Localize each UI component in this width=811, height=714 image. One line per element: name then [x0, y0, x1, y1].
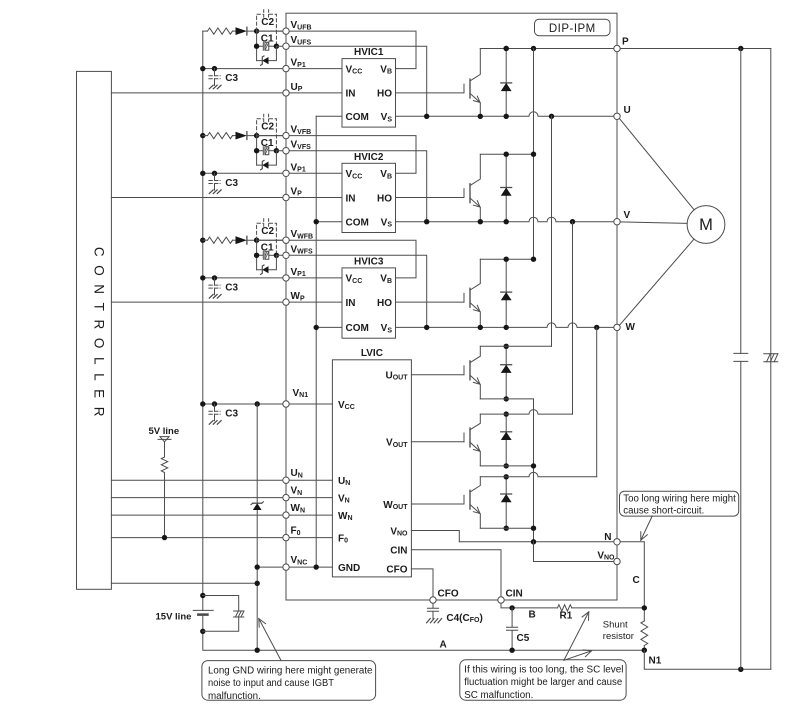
- junction bootstrap top phase W: [254, 238, 259, 243]
- wire diode to VWFB node: [247, 239, 286, 241]
- junction P vertical / W bus: [531, 257, 536, 262]
- wire VWFS row: [276, 255, 426, 327]
- junction C3 top VN1: [212, 401, 217, 406]
- junction COM HVIC3: [314, 325, 319, 330]
- svg-text:VP: VP: [291, 187, 303, 198]
- capacitor C3 VN1 (dashed): [214, 404, 216, 411]
- diode freewheel low V: [505, 414, 507, 466]
- svg-text:CIN: CIN: [390, 546, 407, 557]
- svg-text:UP: UP: [291, 82, 303, 93]
- svg-text:IN: IN: [346, 193, 356, 204]
- capacitor C1 phase U: [257, 42, 264, 50]
- wire VB to VUFB riser HVIC1: [257, 31, 416, 69]
- svg-text:WN: WN: [291, 503, 306, 514]
- wire collector bus V: [480, 153, 533, 155]
- power 5V terminal: [160, 437, 169, 442]
- junction R1/shunt: [642, 605, 647, 610]
- svg-text:Long GND wiring here might gen: Long GND wiring here might generate: [208, 665, 373, 676]
- diode bootstrap phase U: [236, 27, 247, 35]
- junction emitter high W: [478, 325, 483, 330]
- capacitor C3 phase U (dashed): [214, 69, 216, 76]
- node VP: [283, 194, 289, 200]
- wire VN row: [111, 497, 332, 499]
- wire P rail: [480, 48, 617, 50]
- wire lower-U collector bus: [480, 345, 551, 347]
- junction C3 top phase W: [212, 275, 217, 280]
- ground frame 15V: [234, 611, 244, 617]
- wire VS/V emitter row: [396, 217, 618, 222]
- wire VB to VWFB riser HVIC3: [257, 240, 416, 278]
- junction W row to lower-W riser: [594, 325, 599, 330]
- wire N to shunt (C trace): [617, 542, 644, 621]
- wire HO to gate HVIC3: [396, 301, 465, 303]
- svg-text:15V line: 15V line: [156, 612, 192, 623]
- svg-text:VWFB: VWFB: [291, 229, 314, 240]
- svg-text:IN: IN: [346, 298, 356, 309]
- node VUFS: [283, 43, 289, 49]
- junction diode top low U: [504, 344, 509, 349]
- wire COM common vertical: [315, 116, 317, 567]
- wire riser U node to lower-U collector: [551, 116, 553, 346]
- svg-text:C1: C1: [261, 242, 274, 253]
- svg-text:VNC: VNC: [291, 555, 308, 566]
- svg-text:C3: C3: [225, 409, 238, 420]
- DIP-IPM label box: [535, 19, 611, 36]
- junction C1 right phase V: [274, 148, 279, 153]
- svg-text:VWFS: VWFS: [291, 244, 314, 255]
- wire UN row: [111, 479, 332, 481]
- junction gnd vertical top: [255, 401, 260, 406]
- wire COM HVIC2: [316, 221, 342, 223]
- svg-text:UN: UN: [291, 468, 303, 479]
- junction 15V rail / phase W charge row: [200, 238, 205, 243]
- svg-text:CONTROLLER: CONTROLLER: [92, 247, 107, 425]
- wire VNO node branch: [534, 542, 618, 562]
- node VWFS: [283, 252, 289, 258]
- svg-text:C2: C2: [261, 121, 274, 132]
- svg-text:C2: C2: [261, 17, 274, 28]
- svg-text:N1: N1: [649, 656, 662, 667]
- arrow note2 to B: [564, 612, 589, 661]
- wire R1 to shunt: [572, 607, 645, 609]
- junction C5 bottom: [509, 648, 514, 653]
- junction C1 left phase V: [254, 148, 259, 153]
- svg-text:VNO: VNO: [597, 551, 615, 562]
- svg-text:cause short-circuit.: cause short-circuit.: [623, 506, 704, 517]
- op-amp/IC HVIC3 box: [342, 268, 396, 338]
- junction lower-W emitter chain: [531, 526, 536, 531]
- capacitor C2 phase W (dashed optional): [257, 223, 277, 255]
- resistor bootstrap phase U: [203, 30, 208, 32]
- wire VS/W emitter row: [396, 323, 618, 328]
- wire resistor to diode phase V: [233, 135, 236, 137]
- wire DC-link cap vertical: [740, 49, 742, 670]
- transistor IGBT low-side U: [463, 366, 465, 375]
- node VWFB: [283, 237, 289, 243]
- junction diode top high W: [504, 257, 509, 262]
- wire UP row (controller to HVIC1 IN): [111, 92, 342, 94]
- wire lower-V emitter: [480, 465, 533, 467]
- capacitor C2 phase U (dashed optional): [257, 14, 277, 46]
- transistor IGBT low-side W: [463, 495, 465, 504]
- wire VS/U emitter row: [396, 112, 618, 116]
- junction emitter chain / N net: [531, 539, 536, 544]
- junction diode bottom low W: [504, 526, 509, 531]
- svg-text:DIP-IPM: DIP-IPM: [549, 23, 596, 35]
- ground C4: [427, 619, 442, 623]
- junction rail VP1 phase W: [200, 275, 205, 280]
- diode freewheel high U: [505, 49, 507, 117]
- svg-text:WP: WP: [291, 291, 305, 302]
- node VNC: [283, 564, 289, 570]
- wire gnd vertical: [256, 404, 258, 650]
- svg-text:GND: GND: [338, 563, 360, 574]
- wire VP1 row phase V: [203, 172, 342, 174]
- wire WN row: [111, 514, 332, 516]
- svg-text:fluctuation might be larger an: fluctuation might be larger and cause: [464, 677, 623, 688]
- junction gnd vertical / A wire: [255, 648, 260, 653]
- svg-text:VN: VN: [291, 486, 303, 497]
- junction bootstrap top phase V: [254, 133, 259, 138]
- junction VVFS drop on V row: [424, 219, 429, 224]
- note box long GND wiring: [202, 661, 376, 701]
- svg-text:C1: C1: [261, 33, 274, 44]
- junction diode bottom low U: [504, 396, 509, 401]
- svg-text:noise to input and cause IGBT: noise to input and cause IGBT: [208, 678, 334, 689]
- junction P external cap: [738, 46, 743, 51]
- junction C1 left phase W: [254, 253, 259, 258]
- transistor IGBT low-side V: [463, 433, 465, 442]
- junction lower-V emitter chain: [531, 463, 536, 468]
- node N: [614, 539, 620, 545]
- junction 5V pull-up on F0: [162, 535, 167, 540]
- wire lower-U emitter: [480, 398, 533, 400]
- junction diode top low V: [504, 411, 509, 416]
- svg-text:W: W: [626, 322, 636, 333]
- svg-text:LVIC: LVIC: [361, 348, 383, 359]
- arrow note3: [641, 516, 652, 540]
- junction battery bottom: [200, 629, 205, 634]
- wire battery frame loop: [203, 596, 239, 632]
- wire shunt to N1: [643, 646, 645, 651]
- node F0: [283, 534, 289, 540]
- node VN: [283, 494, 289, 500]
- wire VUFS row: [276, 46, 426, 116]
- svg-text:IN: IN: [346, 89, 356, 100]
- controller box: [77, 71, 112, 589]
- svg-text:malfunction.: malfunction.: [208, 691, 261, 702]
- svg-text:If this wiring is too long, th: If this wiring is too long, the SC level: [464, 664, 623, 675]
- node VP1 phase W: [283, 275, 289, 281]
- wire VB to VVFB riser HVIC2: [257, 136, 416, 174]
- junction C1 left phase U: [254, 44, 259, 49]
- node VUFB: [283, 28, 289, 34]
- wire VP1 row phase U: [203, 68, 342, 70]
- note box short circuit: [620, 491, 739, 516]
- wire resistor to F0: [164, 473, 166, 538]
- wire COM HVIC1: [316, 115, 342, 117]
- wire diode to VVFB node: [247, 135, 286, 137]
- resistor R1: [558, 605, 572, 611]
- svg-text:HVIC2: HVIC2: [354, 152, 384, 163]
- svg-text:P: P: [622, 37, 629, 48]
- junction diode top low W: [504, 474, 509, 479]
- svg-text:Too long wiring here might: Too long wiring here might: [623, 494, 736, 505]
- wire V to motor: [620, 222, 687, 224]
- wire bootstrap left vertical phase W: [256, 240, 258, 270]
- wire battery bottom: [203, 615, 645, 651]
- wire N1 to bottom rail: [644, 650, 771, 669]
- wire resistor to diode phase W: [233, 239, 236, 241]
- wire lower-W collector bus: [480, 472, 596, 477]
- wire riser W node to lower-W collector: [596, 327, 598, 476]
- diode bootstrap phase V: [236, 132, 247, 140]
- svg-text:Shunt: Shunt: [603, 619, 628, 630]
- junction diode top high V: [504, 152, 509, 157]
- junction C5 top: [509, 605, 514, 610]
- svg-text:VN1: VN1: [293, 388, 309, 399]
- svg-text:VUFB: VUFB: [291, 20, 312, 31]
- svg-text:VP1: VP1: [291, 162, 306, 173]
- svg-text:CFO: CFO: [438, 589, 459, 600]
- transistor IGBT high-side V: [463, 189, 465, 198]
- wire UOUT to gate: [411, 374, 464, 376]
- capacitor DC-link: [734, 353, 748, 361]
- junction V row to lower-V riser: [570, 219, 575, 224]
- junction rail VN1: [200, 401, 205, 406]
- wire collector bus W: [480, 258, 533, 260]
- svg-text:C3: C3: [225, 283, 238, 294]
- svg-text:HO: HO: [377, 193, 392, 204]
- capacitor C5: [507, 608, 518, 650]
- svg-text:CIN: CIN: [506, 589, 523, 600]
- junction gnd/VNC: [255, 564, 260, 569]
- wire CIN pin drop: [411, 550, 501, 600]
- svg-text:CFO: CFO: [386, 565, 407, 576]
- wire VN1 row: [203, 403, 333, 405]
- battery 15V: [193, 609, 213, 611]
- junction rail VP1 phase V: [200, 171, 205, 176]
- resistor bootstrap phase V: [203, 135, 208, 137]
- svg-text:HVIC3: HVIC3: [354, 256, 384, 267]
- junction diode bottom low V: [504, 463, 509, 468]
- wire 5V to resistor: [164, 442, 166, 457]
- svg-text:C2: C2: [261, 226, 274, 237]
- wire U to motor: [619, 118, 694, 210]
- wire resistor to diode phase U: [233, 30, 236, 32]
- svg-text:COM: COM: [346, 112, 369, 123]
- diode bootstrap phase W: [236, 236, 247, 244]
- svg-text:5V line: 5V line: [149, 426, 180, 437]
- node WP: [283, 299, 289, 305]
- junction P rail distribution: [531, 46, 536, 51]
- junction C3 top phase U: [212, 66, 217, 71]
- svg-text:C3: C3: [225, 178, 238, 189]
- svg-text:C4(CFO): C4(CFO): [446, 613, 482, 624]
- svg-text:N: N: [604, 532, 611, 543]
- wire W to motor: [619, 239, 694, 326]
- wire F0 row: [111, 537, 332, 539]
- op-amp/IC LVIC box: [332, 360, 411, 577]
- node V: [614, 219, 620, 225]
- wire controller ground: [111, 582, 257, 584]
- node WN: [283, 512, 289, 518]
- wire WOUT to gate: [411, 503, 464, 505]
- wire bootstrap left vertical phase U: [256, 31, 258, 60]
- wire VNO pin to N net: [411, 531, 459, 542]
- junction rail VP1 phase U: [200, 66, 205, 71]
- op-amp/IC HVIC2 box: [342, 163, 396, 232]
- wire HO to gate HVIC2: [396, 197, 465, 199]
- svg-text:VP1: VP1: [291, 267, 306, 278]
- node VNO: [614, 558, 620, 564]
- node VP1 phase U: [283, 65, 289, 71]
- wire earth vertical: [770, 49, 772, 670]
- junction C1 right phase U: [274, 44, 279, 49]
- svg-text:C1: C1: [261, 138, 274, 149]
- svg-text:HVIC1: HVIC1: [354, 47, 384, 58]
- ground C3 phase W: [209, 295, 221, 299]
- wire 15V rail vertical: [202, 31, 204, 595]
- svg-text:HO: HO: [377, 298, 392, 309]
- wire CFO pin drop: [411, 569, 433, 600]
- svg-text:C5: C5: [517, 633, 530, 644]
- svg-text:C: C: [633, 575, 640, 586]
- diode freewheel low U: [505, 346, 507, 399]
- junction 15V rail / phase V charge row: [200, 133, 205, 138]
- junction C1 right phase W: [274, 253, 279, 258]
- node P: [614, 45, 620, 51]
- wire riser V node to lower-V collector: [572, 222, 574, 414]
- wire lower emitter chain vertical: [533, 399, 535, 542]
- wire WP row (controller to HVIC3 IN): [111, 301, 342, 303]
- transistor IGBT high-side W: [463, 293, 465, 302]
- svg-text:VUFS: VUFS: [291, 35, 312, 46]
- ground C3 phase V: [209, 190, 221, 194]
- wire bootstrap left vertical phase V: [256, 136, 258, 166]
- wire VOUT to gate: [411, 441, 464, 443]
- svg-text:VVFS: VVFS: [291, 140, 312, 151]
- svg-text:B: B: [529, 610, 536, 621]
- resistor bootstrap phase W: [203, 239, 208, 241]
- junction C3 top phase V: [212, 171, 217, 176]
- node VVFS: [283, 148, 289, 154]
- diode freewheel low W: [505, 477, 507, 528]
- wire HO to gate HVIC1: [396, 92, 465, 94]
- svg-text:SC malfunction.: SC malfunction.: [464, 690, 533, 701]
- op-amp/IC HVIC1 box: [342, 59, 396, 128]
- junction VWFS drop on W row: [424, 325, 429, 330]
- wire CIN to B: [501, 600, 558, 608]
- capacitor C1 phase W: [257, 251, 264, 259]
- node UP: [283, 90, 289, 96]
- junction U row to lower-U riser: [549, 114, 554, 119]
- capacitor C3 phase W (dashed): [214, 278, 216, 285]
- junction bottom rail / cap: [738, 667, 743, 672]
- node W: [614, 324, 620, 330]
- note box SC level: [460, 660, 626, 701]
- svg-text:U: U: [624, 105, 631, 116]
- node CIN: [498, 597, 504, 603]
- motor M: [687, 206, 725, 244]
- junction COM vertical bottom: [314, 564, 319, 569]
- zener diode bootstrap clamp phase W: [257, 255, 277, 269]
- svg-text:COM: COM: [346, 218, 369, 229]
- svg-text:A: A: [440, 640, 447, 651]
- arrow note2 to A: [564, 651, 592, 661]
- zener diode bootstrap clamp phase V: [257, 151, 277, 165]
- zener diode bootstrap clamp phase U: [257, 46, 277, 60]
- zener diode 15V clamp: [253, 503, 262, 510]
- capacitor C4: [427, 600, 438, 619]
- capacitor C1 phase V: [257, 147, 264, 155]
- wire COM HVIC3: [316, 326, 342, 328]
- ground earth symbol: [764, 354, 778, 362]
- node VN1: [283, 401, 289, 407]
- svg-text:COM: COM: [346, 323, 369, 334]
- node UN: [283, 477, 289, 483]
- svg-text:F0: F0: [291, 526, 301, 537]
- junction emitter high U: [478, 114, 483, 119]
- svg-text:VP1: VP1: [291, 58, 306, 69]
- wire P external: [617, 48, 771, 50]
- svg-text:V: V: [624, 210, 631, 221]
- junction P rail diode U: [504, 46, 509, 51]
- junction VUFS drop on U row: [424, 114, 429, 119]
- diode freewheel high W: [505, 259, 507, 327]
- junction emitter high V: [478, 219, 483, 224]
- diode freewheel high V: [505, 154, 507, 222]
- junction diode bottom high W: [504, 325, 509, 330]
- junction N1: [642, 648, 647, 653]
- svg-text:C3: C3: [225, 73, 238, 84]
- wire P distribution vertical: [533, 49, 535, 260]
- wire VP1 row phase W: [203, 277, 342, 279]
- ground C3 phase U: [209, 85, 221, 89]
- resistor shunt: [641, 621, 648, 646]
- node VP1 phase V: [283, 170, 289, 176]
- wire VVFS row: [276, 151, 426, 222]
- junction diode top high U: [504, 46, 509, 51]
- svg-text:HO: HO: [377, 89, 392, 100]
- resistor 5V pull-up: [161, 457, 167, 473]
- ground C3 VN1: [209, 421, 221, 425]
- node VVFB: [283, 132, 289, 138]
- capacitor C2 phase V (dashed optional): [257, 119, 277, 151]
- wire rail to battery: [202, 596, 204, 611]
- capacitor C3 phase V (dashed): [214, 173, 216, 180]
- svg-text:M: M: [699, 216, 713, 234]
- junction bootstrap top phase U: [254, 28, 259, 33]
- transistor IGBT high-side U: [463, 84, 465, 93]
- wire VNC row: [257, 566, 332, 568]
- wire lower-V collector bus: [480, 410, 572, 415]
- junction battery top: [200, 593, 205, 598]
- wire VP row (controller to HVIC2 IN): [111, 197, 342, 199]
- wire N net row: [459, 541, 617, 543]
- junction diode bottom high V: [504, 219, 509, 224]
- DIP-IPM module outline: [286, 13, 617, 600]
- junction controller gnd: [255, 581, 260, 586]
- junction COM HVIC2: [314, 219, 319, 224]
- wire diode to VUFB node: [247, 30, 286, 32]
- node CFO: [430, 597, 436, 603]
- svg-text:R1: R1: [560, 611, 573, 622]
- arrow note1: [259, 619, 281, 661]
- junction diode bottom high U: [504, 114, 509, 119]
- junction P vertical / V bus: [531, 152, 536, 157]
- node U: [614, 113, 620, 119]
